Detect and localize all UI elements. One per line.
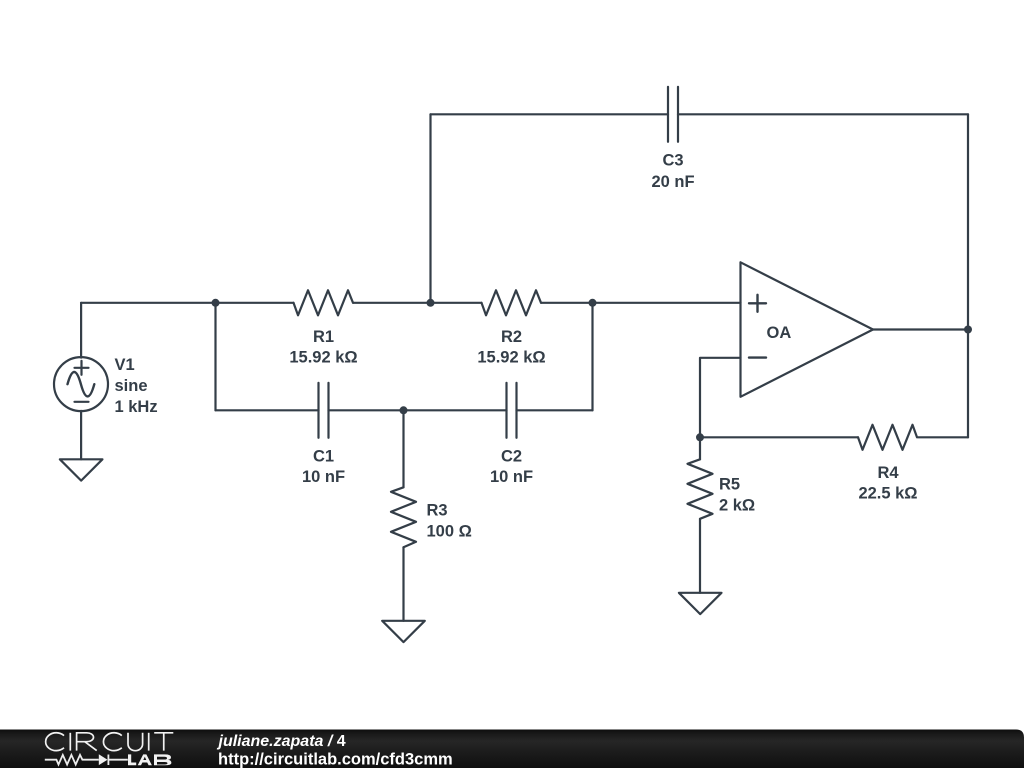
- logo diode cathode bar and lead: [108, 755, 128, 766]
- node junction B: [589, 299, 597, 307]
- node junction output: [964, 326, 972, 334]
- svg-text:15.92 kΩ: 15.92 kΩ: [477, 348, 545, 366]
- node junction A: [212, 299, 220, 307]
- capacitor C1: [319, 383, 329, 438]
- svg-text:C1: C1: [313, 447, 334, 465]
- ground G1 under V1: [60, 459, 103, 480]
- svg-text:22.5 kΩ: 22.5 kΩ: [858, 484, 917, 502]
- svg-text:10 nF: 10 nF: [490, 468, 533, 486]
- logo CIRCUIT lettering: [46, 733, 174, 751]
- ground G3 under R5: [679, 593, 722, 614]
- svg-text:C2: C2: [501, 447, 522, 465]
- wire R3 bottom to ground: [402, 547, 404, 621]
- wire feedback rail right of R4: [918, 436, 968, 438]
- svg-text:C3: C3: [662, 151, 683, 169]
- node junction top loop tap: [427, 299, 435, 307]
- wire junction B down to bottom rail: [591, 303, 593, 411]
- wire R5 top lead: [699, 437, 701, 459]
- wire V1 bottom lead: [80, 411, 82, 460]
- wire V1 top lead: [80, 303, 82, 358]
- V1 minus sign: [75, 401, 89, 403]
- voltage source V1 circle: [54, 357, 108, 411]
- svg-text:2 kΩ: 2 kΩ: [719, 496, 755, 514]
- wire op-amp output: [873, 328, 968, 330]
- svg-text:15.92 kΩ: 15.92 kΩ: [289, 348, 357, 366]
- V1 sine wave: [68, 372, 95, 396]
- ground G2 under R3: [382, 621, 425, 642]
- svg-text:10 nF: 10 nF: [302, 468, 345, 486]
- svg-text:OA: OA: [767, 324, 792, 342]
- resistor R5: [688, 459, 713, 519]
- wire node to R3 top: [402, 410, 404, 487]
- wire left vertical to C3 loop: [429, 114, 431, 302]
- resistor R2: [482, 290, 542, 315]
- logo diode: [99, 754, 108, 765]
- wire top rail right of C3: [678, 113, 968, 115]
- svg-text:R5: R5: [719, 475, 740, 493]
- wire R1 to R2 segment: [354, 302, 482, 304]
- op-amp plus input sign: [749, 295, 766, 312]
- wire R2 to op-amp plus input: [542, 302, 741, 304]
- wire top rail left of C3: [431, 113, 669, 115]
- wire bottom rail C1 to C2: [329, 409, 507, 411]
- node junction bottom rail / R3: [400, 406, 408, 414]
- op-amp OA: [741, 262, 874, 397]
- V1 plus sign: [75, 361, 89, 375]
- svg-text:http://circuitlab.com/cfd3cmm: http://circuitlab.com/cfd3cmm: [218, 751, 453, 768]
- wire main input rail: [81, 302, 293, 304]
- capacitor C3: [668, 87, 678, 142]
- svg-text:juliane.zapata / 4: juliane.zapata / 4: [217, 733, 346, 750]
- logo schematic squiggle resistor: [45, 755, 99, 765]
- svg-text:R1: R1: [313, 328, 334, 346]
- wire bottom rail left of C1: [216, 409, 319, 411]
- svg-text:sine: sine: [115, 377, 148, 395]
- svg-text:1 kHz: 1 kHz: [115, 398, 158, 416]
- svg-text:R3: R3: [427, 502, 448, 520]
- svg-text:R2: R2: [501, 328, 522, 346]
- wire right vertical output to feedback: [967, 330, 969, 438]
- svg-text:20 nF: 20 nF: [651, 173, 694, 191]
- resistor R4: [858, 425, 917, 450]
- node junction feedback / R5: [696, 433, 704, 441]
- svg-text:100 Ω: 100 Ω: [427, 522, 472, 540]
- wire bottom rail right of C2: [517, 409, 593, 411]
- wire right vertical from top rail to output: [967, 114, 969, 329]
- svg-text:V1: V1: [115, 356, 135, 374]
- wire R5 bottom to ground: [699, 519, 701, 593]
- wire feedback rail left of R4: [700, 436, 858, 438]
- svg-text:R4: R4: [877, 464, 899, 482]
- resistor R3: [391, 487, 416, 547]
- wire op-amp minus input: [700, 358, 741, 438]
- resistor R1: [294, 290, 354, 315]
- capacitor C2: [507, 383, 517, 438]
- op-amp minus input sign: [749, 356, 766, 358]
- logo LAB text: [128, 754, 171, 765]
- wire junction A down to bottom rail: [214, 303, 216, 411]
